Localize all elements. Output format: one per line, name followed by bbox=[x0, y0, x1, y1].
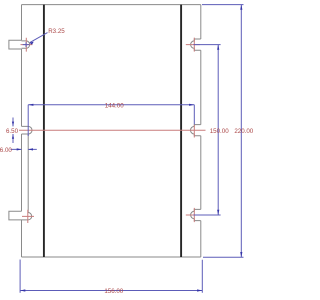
dimension 144.00 arrows bbox=[28, 104, 33, 106]
top-left notch slot with R3.25 rounded end bbox=[22, 41, 30, 48]
dimension 220.00 arrows bbox=[240, 5, 242, 10]
dimension 220.00 extension lines bbox=[202, 5, 244, 258]
part outline: top edge bbox=[22, 4, 201, 6]
dimension 150.00 extension lines bbox=[194, 45, 221, 215]
svg-text:220.00: 220.00 bbox=[234, 128, 253, 135]
bend line right (thick) bbox=[180, 5, 182, 257]
dimension 144.00 extension lines bbox=[28, 105, 194, 136]
red center cross bottom-right notch bbox=[186, 208, 200, 222]
red center tick right slot bbox=[193, 125, 195, 138]
svg-text:6.50: 6.50 bbox=[6, 128, 19, 135]
dimension 144.00 line bbox=[28, 104, 194, 106]
top-right notch bbox=[191, 39, 201, 50]
dimension 156.00 line bbox=[20, 290, 202, 292]
left inner groove line bbox=[27, 134, 29, 213]
bottom-left notch slot with rounded end bbox=[22, 213, 32, 220]
dimension 156.00 extension lines bbox=[20, 260, 202, 293]
bottom-left notch box bbox=[9, 211, 22, 220]
red center cross top-right notch bbox=[186, 38, 200, 52]
red centerline through middle slots bbox=[19, 129, 206, 131]
svg-text:R3.25: R3.25 bbox=[48, 28, 65, 35]
bottom-right notch bbox=[191, 209, 201, 220]
dimension 156.00 arrows bbox=[20, 289, 25, 291]
R3.25 leader line bbox=[30, 33, 48, 43]
red center cross bottom-left notch bbox=[22, 210, 34, 223]
middle-left open slot 6.50 wide bbox=[22, 126, 33, 134]
part outline: right edge segments bbox=[200, 5, 202, 257]
R3.25 blue center mark bbox=[23, 42, 30, 47]
dimension 150.00 line bbox=[217, 45, 219, 215]
red center cross top-left notch bbox=[21, 38, 33, 52]
dimension 150.00 arrows bbox=[217, 45, 219, 50]
top-left notch box bbox=[9, 40, 22, 49]
dimension 220.00 line bbox=[240, 5, 242, 258]
part outline: bottom edge bbox=[22, 256, 201, 258]
part outline: left edge segments bbox=[21, 5, 23, 257]
dimension 6.50 line and arrows bbox=[12, 118, 14, 144]
svg-text:156.00: 156.00 bbox=[104, 288, 123, 295]
dimension 6.00 arrows bbox=[11, 148, 37, 150]
bend line left (thick) bbox=[43, 5, 45, 257]
svg-text:6.00: 6.00 bbox=[0, 147, 12, 154]
svg-text:150.00: 150.00 bbox=[210, 128, 229, 135]
svg-text:144.00: 144.00 bbox=[105, 103, 124, 110]
middle-right slot bbox=[191, 125, 201, 136]
